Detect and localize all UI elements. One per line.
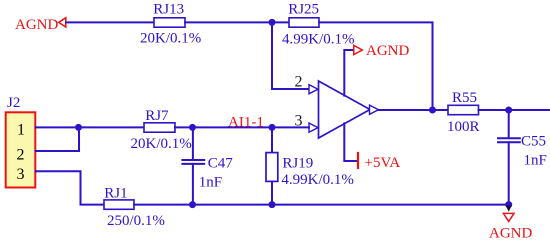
node junction bottom C47 [189, 201, 196, 208]
wire op-amp output to R55 [379, 109, 449, 111]
svg-text:100R: 100R [447, 119, 480, 135]
node junction C47 tap [189, 124, 196, 131]
wire RJ25 to output node [319, 22, 433, 110]
wire junction down to op-amp pin 2 [272, 22, 309, 89]
wire AGND arrow to RJ13 [66, 21, 154, 23]
svg-text:AI1-1: AI1-1 [228, 115, 264, 131]
wire J2 pin 1 to RJ7 [36, 126, 145, 128]
node junction C55 tap [505, 107, 512, 114]
svg-text:RJ25: RJ25 [288, 2, 319, 18]
svg-text:J2: J2 [7, 95, 20, 111]
svg-text:20K/0.1%: 20K/0.1% [131, 136, 192, 152]
svg-text:C47: C47 [208, 156, 234, 172]
svg-text:2: 2 [295, 74, 303, 91]
svg-text:+5VA: +5VA [365, 155, 401, 171]
connector J2 [6, 95, 36, 188]
svg-text:4.99K/0.1%: 4.99K/0.1% [281, 172, 354, 188]
node junction bottom C55/AGND [505, 201, 512, 208]
resistor RJ7 [131, 108, 192, 152]
svg-text:4.99K/0.1%: 4.99K/0.1% [282, 32, 355, 48]
resistor RJ13 [140, 2, 201, 47]
svg-text:R55: R55 [452, 90, 477, 106]
power symbol AGND (op-amp supply) [354, 43, 410, 59]
capacitor C55 [498, 110, 547, 205]
wire op-amp top power pin up [344, 50, 353, 96]
svg-text:AGND: AGND [366, 43, 409, 59]
capacitor C47 [182, 127, 233, 204]
power symbol AGND (top left) [15, 17, 66, 33]
svg-text:20K/0.1%: 20K/0.1% [140, 31, 201, 47]
resistor RJ25 [282, 2, 355, 48]
wire op-amp bottom power pin down [344, 123, 357, 161]
svg-text:3: 3 [17, 166, 25, 183]
resistor RJ1 [104, 186, 165, 229]
wire R55 to right edge [479, 109, 550, 111]
node junction bottom RJ19 [269, 201, 276, 208]
wire J2 pin 2 up to junction [36, 127, 80, 151]
svg-text:1nF: 1nF [199, 175, 222, 191]
node junction top (feedback tap) [269, 19, 276, 26]
wire bottom rail RJ1 to AGND [134, 204, 509, 206]
wire RJ7 to op-amp pin 3 [175, 126, 309, 128]
svg-text:RJ7: RJ7 [145, 108, 169, 124]
node junction RJ19 tap [269, 124, 276, 131]
svg-text:AGND: AGND [15, 17, 58, 33]
svg-text:2: 2 [17, 147, 25, 164]
svg-text:250/0.1%: 250/0.1% [107, 213, 165, 229]
resistor RJ19 [266, 127, 354, 204]
node junction output/feedback [429, 107, 436, 114]
svg-text:1: 1 [17, 122, 25, 139]
power symbol +5VA [358, 153, 400, 171]
svg-text:1nF: 1nF [524, 153, 547, 169]
node junction pin1/pin2 [75, 124, 82, 131]
svg-text:AGND: AGND [489, 225, 532, 241]
resistor R55 [447, 90, 480, 135]
svg-text:RJ13: RJ13 [153, 2, 184, 18]
op-amp U1 [309, 81, 379, 138]
wire RJ13 to RJ25 [185, 21, 289, 23]
power symbol AGND (bottom right) [489, 206, 532, 242]
wire J2 pin 3 down to RJ1 [36, 171, 105, 204]
svg-text:C55: C55 [521, 133, 546, 149]
svg-text:RJ19: RJ19 [282, 156, 313, 172]
